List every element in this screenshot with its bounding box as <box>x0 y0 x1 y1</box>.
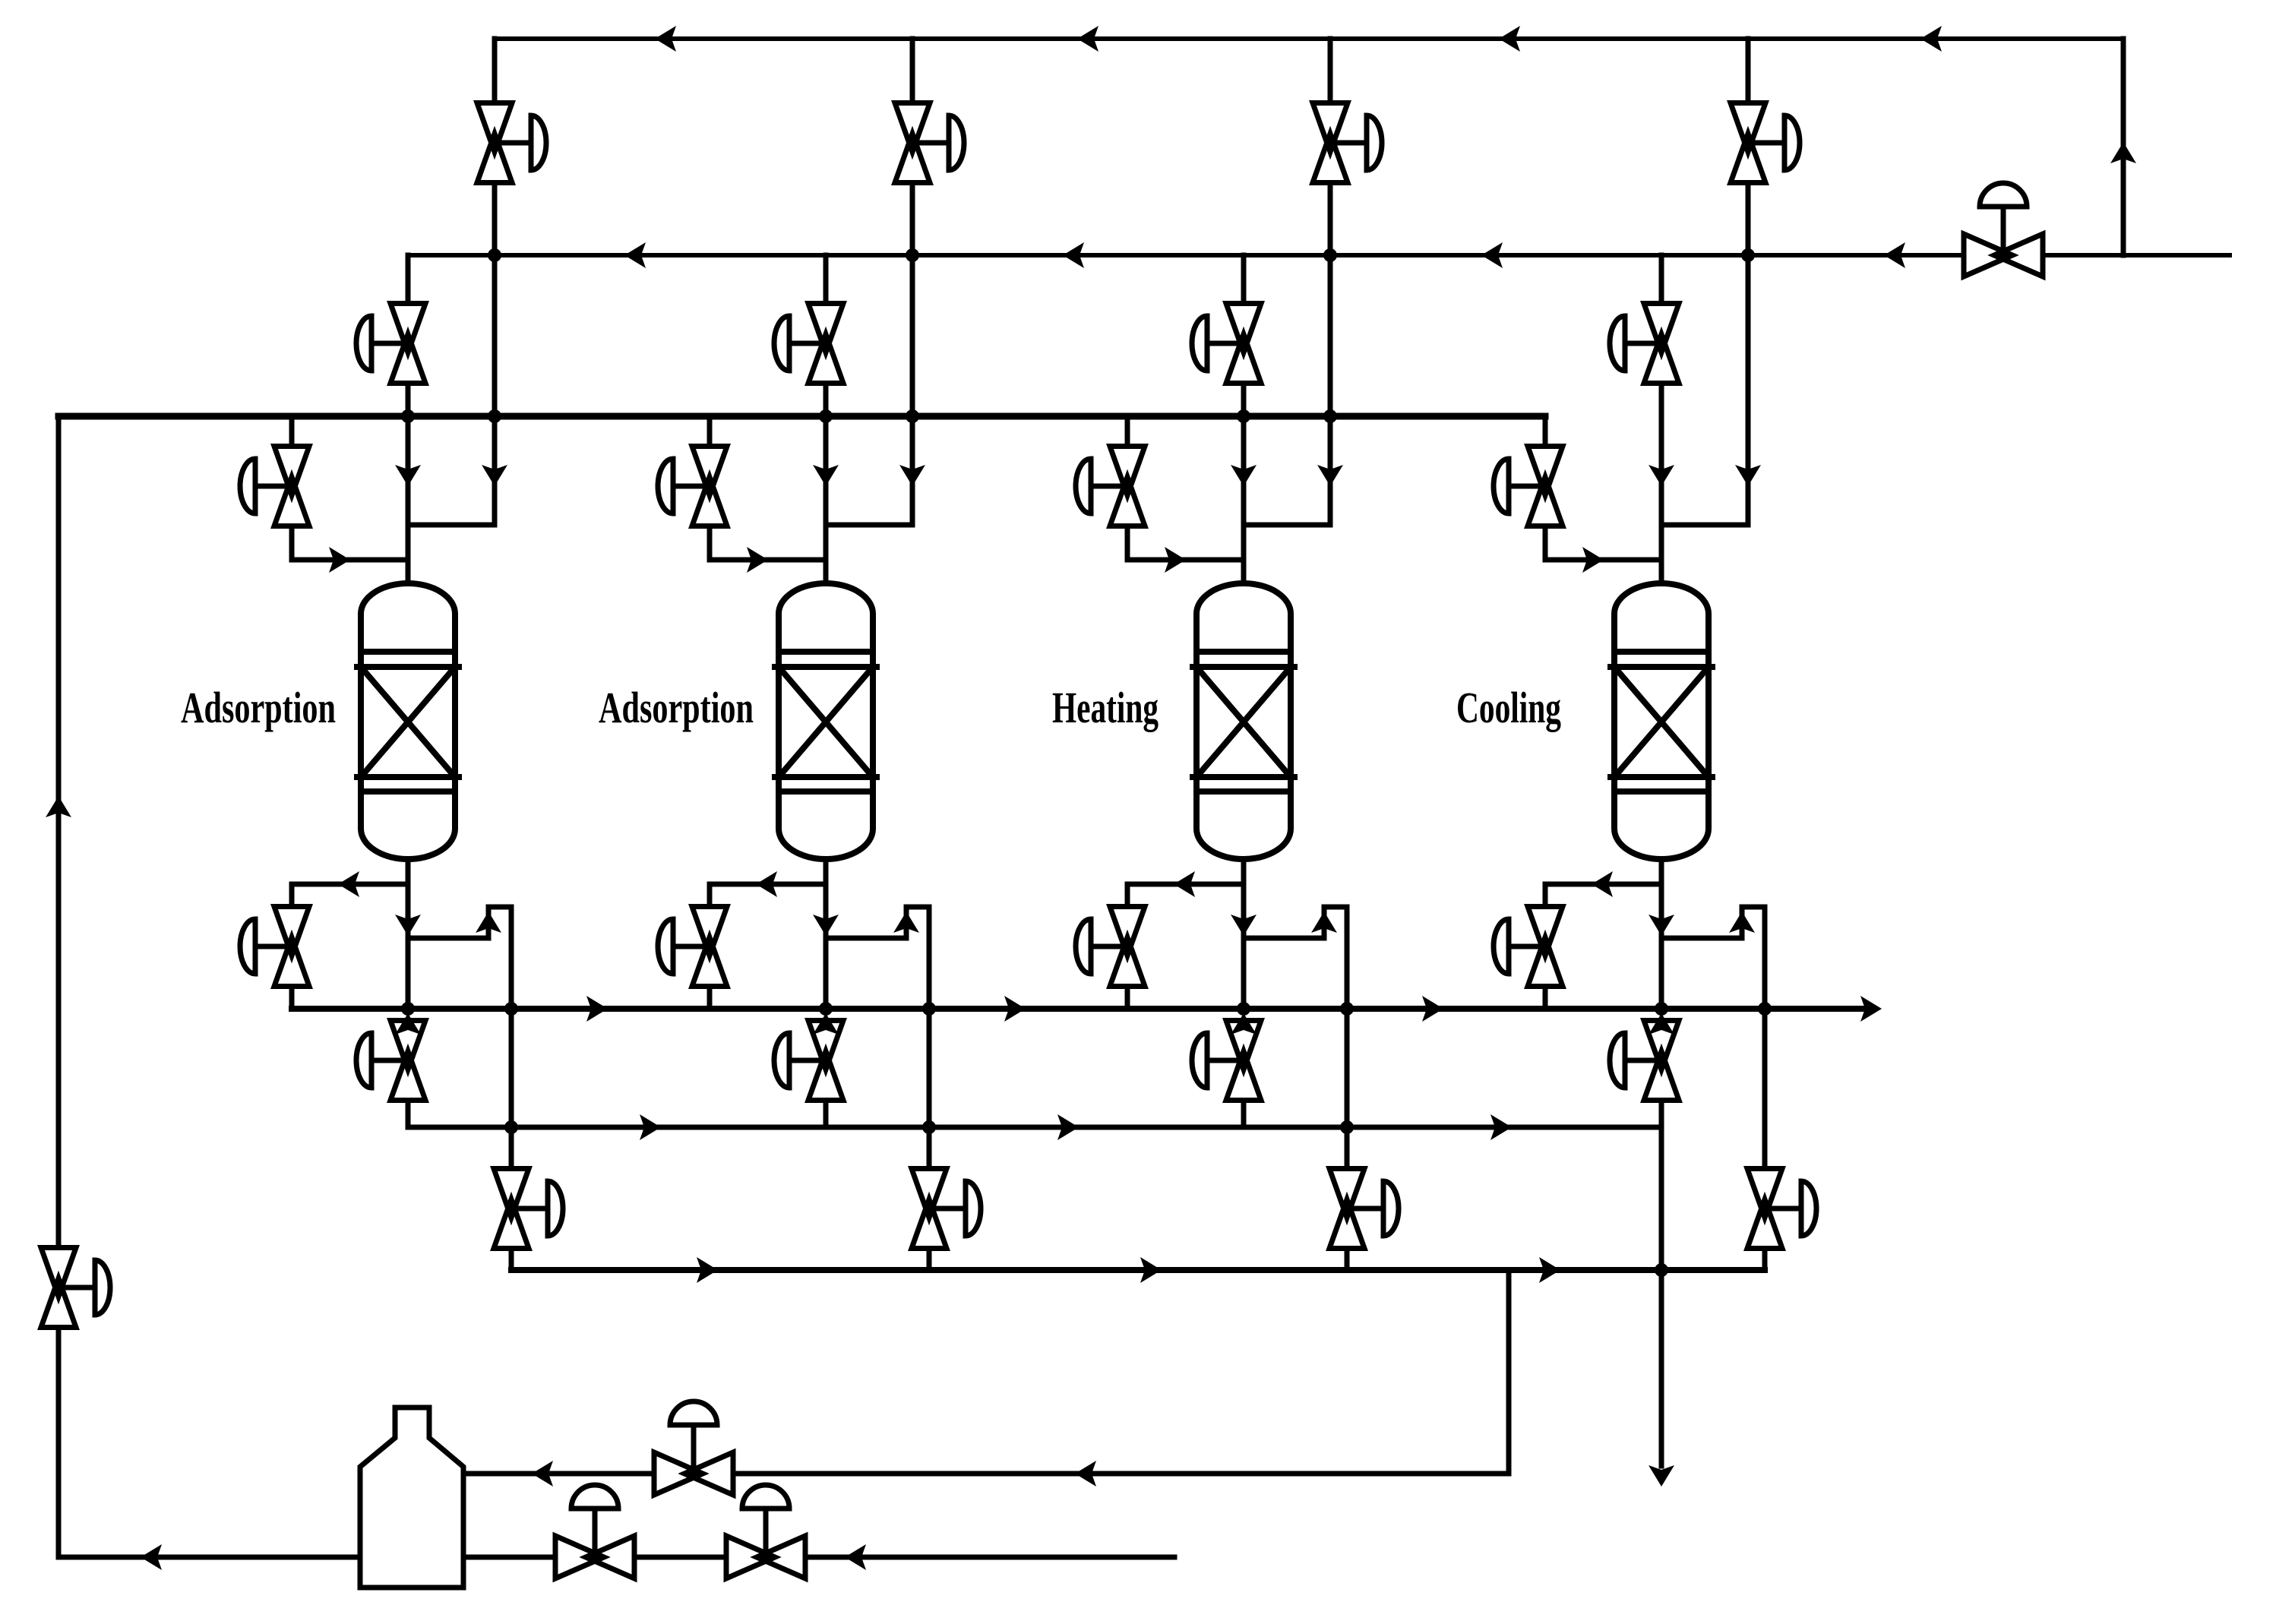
wire: column 2 outlet branch to drain valve <box>710 882 826 887</box>
wire: column 2 feed branch to vessel inlet <box>710 558 826 563</box>
wire: column 4 row E valve to line5 <box>1659 1101 1664 1127</box>
control valve CV2 (tank inlet) <box>691 1425 697 1474</box>
wire: column 4 feed branch to vessel inlet <box>1545 558 1661 563</box>
flow arrow right on line 5 #1 <box>640 1114 661 1140</box>
wire: column 3 top riser lower stub <box>1328 183 1333 255</box>
flow arrow down on legL1 <box>395 465 421 486</box>
junction: legL2 x manifold <box>819 409 833 423</box>
wire: column 1 top riser lower stub <box>492 183 498 255</box>
wire: column 3 legL manifold to vessel <box>1241 416 1247 583</box>
flow arrow down on legL3 <box>1231 465 1257 486</box>
wire: column 1 legL line2 stub <box>406 255 411 304</box>
wire: legR2-2 line5 to valve <box>927 1127 932 1169</box>
wire: legR2-3 line5 to valve <box>1345 1127 1350 1169</box>
flow arrow left on outlet branch 1 <box>338 871 359 897</box>
wire: legR3 elbow to vessel inlet <box>1244 523 1330 528</box>
junction: legR2-4 x line4 <box>1758 1002 1772 1016</box>
wire: column 1 legL to manifold <box>406 384 411 416</box>
flow arrow up into line4 column 3 <box>1231 1013 1257 1035</box>
junction: legR2 x manifold <box>906 409 919 423</box>
junction: legR2-1 x line4 <box>504 1002 518 1016</box>
junction: legR2-3 x line5 <box>1340 1120 1354 1134</box>
valve V45 (product, actuator left) <box>1625 1058 1661 1063</box>
wire: column 3 feed branch stub <box>1125 416 1130 447</box>
wire: column 4 top riser upper stub <box>1746 39 1751 103</box>
wire: column 3 legL to manifold <box>1241 384 1247 416</box>
svg-text:Adsorption: Adsorption <box>599 683 754 732</box>
flow arrow right on feed branch 3 <box>1165 547 1186 573</box>
flow arrow right on line 4 #1 <box>586 996 608 1022</box>
wire: recycle riser <box>2121 39 2126 255</box>
junction: legR2 x line2 <box>906 248 919 262</box>
valve V13 (feed inlet, actuator left) <box>255 484 292 489</box>
junction: legR3 x line2 <box>1323 248 1337 262</box>
wire: column 3 vessel outlet drop <box>1241 859 1247 1009</box>
wire: column 1 crossover riser <box>486 907 492 938</box>
valve V15 (product, actuator left) <box>371 1058 408 1063</box>
flow arrow down on legL2 <box>813 465 839 486</box>
wire: column 4 drain valve stub <box>1543 884 1548 907</box>
wire: legR2-4 valve to line6 <box>1762 1249 1768 1270</box>
wire: legR2-1 valve to line6 <box>509 1249 514 1270</box>
valve V32 (regeneration gas inlet, actuator left) <box>1207 341 1244 346</box>
wire: legR2-2 line4 to line5 <box>927 1009 932 1127</box>
wire: tank inlet horizontal <box>463 1471 1509 1477</box>
wire: legR2-2 valve to line6 <box>927 1249 932 1270</box>
valve V23 (feed inlet, actuator left) <box>673 484 710 489</box>
wire: column 2 legL line2 stub <box>823 255 829 304</box>
flow arrow left on top header #1 <box>655 26 676 52</box>
junction: product drop x line6 <box>1655 1263 1668 1277</box>
wire: column 2 vessel outlet drop <box>823 859 829 1009</box>
flow arrow up on crossover 3 <box>1311 912 1337 933</box>
junction: legR2-2 x line4 <box>922 1002 936 1016</box>
wire: column 3 legR2 drop to line4 <box>1345 907 1350 1009</box>
wire: column 4 legL manifold to vessel <box>1659 416 1664 583</box>
flow arrow right on line 4 #3 <box>1422 996 1443 1022</box>
flow arrow up into line4 column 4 <box>1649 1013 1674 1035</box>
flow arrow left bottom line <box>141 1544 162 1570</box>
wire: column 1 drain valve to line4 <box>289 987 295 1009</box>
wire: legR2-3 line4 to line5 <box>1345 1009 1350 1127</box>
valve V24 (blowdown, actuator left) <box>673 944 710 949</box>
flow arrow right on line 5 #3 <box>1490 1114 1512 1140</box>
wire: column 4 outlet branch to drain valve <box>1545 882 1661 887</box>
svg-text:Heating: Heating <box>1052 683 1159 732</box>
flow arrow right on line 6 #2 <box>1140 1257 1162 1283</box>
flow arrow down on legR4 <box>1735 465 1761 486</box>
junction: legL1 x manifold <box>401 409 415 423</box>
flow arrow left on line 2 #4 <box>1884 242 1905 268</box>
junction: outlet3 x line4 <box>1237 1002 1250 1016</box>
flow arrow right on line 5 #2 <box>1057 1114 1079 1140</box>
valve V36 (regeneration outlet, actuator right) <box>1347 1206 1383 1212</box>
wire: column 4 vessel outlet drop <box>1659 859 1664 1009</box>
wire: column 1 row E valve to line5 <box>406 1101 411 1127</box>
flow arrow left on top header #4 <box>1920 26 1942 52</box>
flow arrow up on crossover 4 <box>1729 912 1755 933</box>
wire: column 1 feed branch drop <box>289 526 295 560</box>
junction: outlet2 x line4 <box>819 1002 833 1016</box>
svg-text:Adsorption: Adsorption <box>181 683 336 732</box>
wire: column 3 feed branch drop <box>1125 526 1130 560</box>
wire: left recycle riser <box>56 416 62 1247</box>
svg-text:Cooling: Cooling <box>1456 683 1561 732</box>
valve V34 (blowdown, actuator left) <box>1091 944 1127 949</box>
flow arrow up on left riser <box>46 796 71 817</box>
wire: legR1 elbow to vessel inlet <box>408 523 495 528</box>
vessel V2 (Adsorption adsorber) <box>779 583 873 859</box>
tank (knockout drum) <box>360 1408 463 1588</box>
flow arrow down on legL4 <box>1649 465 1674 486</box>
wire: column 4 legL line2 stub <box>1659 255 1664 304</box>
wire: column 4 crossover riser <box>1740 907 1745 938</box>
flow arrow up on crossover 1 <box>476 912 501 933</box>
wire: legR2-4 line5 to valve <box>1762 1127 1768 1169</box>
junction: legR3 x manifold <box>1323 409 1337 423</box>
flow arrow down on outlet 3 <box>1231 915 1257 936</box>
wire: column 3 legR line2 to manifold <box>1328 255 1333 525</box>
wire: legR2-4 line4 to line5 <box>1762 1009 1768 1127</box>
wire: product header (line 4) <box>292 1006 1863 1012</box>
wire: line5 end down to product outlet <box>1659 1127 1664 1466</box>
wire: column 1 crossover horizontal <box>408 936 488 941</box>
wire: column 2 legR2 drop to line4 <box>927 907 932 1009</box>
valve V31 (top header isolation, actuator right) <box>1330 141 1367 146</box>
flow arrow left tank inlet #1 <box>1075 1461 1096 1487</box>
flow arrow up on crossover 2 <box>893 912 919 933</box>
wire: legR2-3 valve to line6 <box>1345 1249 1350 1270</box>
wire: column 1 feed branch stub <box>289 416 295 447</box>
wire: column 3 crossover riser <box>1322 907 1327 938</box>
wire: column 3 crossover top <box>1324 905 1347 910</box>
wire: purge header (line 5) <box>408 1125 1661 1130</box>
flow arrow right on line 4 #4 <box>1860 996 1882 1022</box>
flow arrow right on line 6 #1 <box>697 1257 718 1283</box>
wire: column 1 legR2 drop to line4 <box>509 907 514 1009</box>
vessel V1 (Adsorption adsorber) <box>361 583 455 859</box>
wire: column 4 crossover top <box>1742 905 1765 910</box>
wire: column 1 feed branch to vessel inlet <box>292 558 408 563</box>
wire: column 1 legR line2 to manifold <box>492 255 498 525</box>
wire: legR2-1 line5 to valve <box>509 1127 514 1169</box>
wire: column 3 legL line2 stub <box>1241 255 1247 304</box>
flow arrow up into line4 column 1 <box>395 1013 421 1035</box>
valve V42 (regeneration gas inlet, actuator left) <box>1625 341 1661 346</box>
wire: left riser valve to bottom corner <box>56 1328 62 1557</box>
wire: column 2 feed branch stub <box>707 416 713 447</box>
wire: column 1 drain valve stub <box>289 884 295 907</box>
flow arrow right on feed branch 1 <box>329 547 350 573</box>
wire: line6 drop to tank <box>1506 1270 1512 1474</box>
flow arrow left on outlet branch 3 <box>1174 871 1195 897</box>
flow arrow left on top header #2 <box>1077 26 1098 52</box>
flow arrow left on top header #3 <box>1499 26 1520 52</box>
flow arrow right on feed branch 2 <box>747 547 768 573</box>
flow arrow left on line 2 #2 <box>1063 242 1084 268</box>
flow arrow left on line 2 #3 <box>1481 242 1503 268</box>
wire: column 3 drain valve stub <box>1125 884 1130 907</box>
wire: feed manifold (line 3) <box>58 413 1545 420</box>
wire: column 1 vessel outlet drop <box>406 859 411 1009</box>
wire: column 3 crossover horizontal <box>1244 936 1324 941</box>
wire: column 3 outlet branch to drain valve <box>1127 882 1244 887</box>
wire: column 3 top riser upper stub <box>1328 39 1333 103</box>
flow arrow down on outlet 2 <box>813 915 839 936</box>
flow arrow right on feed branch 4 <box>1582 547 1604 573</box>
wire: column 3 feed branch to vessel inlet <box>1127 558 1244 563</box>
flow arrow down on legR2 <box>899 465 925 486</box>
wire: regeneration gas header (line 2) <box>408 253 2230 258</box>
wire: bottom line right of tank <box>463 1555 1174 1560</box>
flow arrow down product outlet <box>1649 1465 1674 1487</box>
wire: top return header (line 1) <box>495 36 2123 41</box>
wire: column 2 crossover horizontal <box>826 936 906 941</box>
wire: column 2 row E valve to line5 <box>823 1101 829 1127</box>
flow arrow left on outlet branch 2 <box>756 871 777 897</box>
flow arrow left on bottom right line <box>845 1544 866 1570</box>
flow arrow right on line 6 #3 <box>1539 1257 1560 1283</box>
junction: legR4 x line2 <box>1741 248 1755 262</box>
wire: column 2 feed branch drop <box>707 526 713 560</box>
wire: column 2 top riser upper stub <box>910 39 915 103</box>
valve V12 (regeneration gas inlet, actuator left) <box>371 341 408 346</box>
wire: column 1 legL manifold to vessel <box>406 416 411 583</box>
valve V11 (top header isolation, actuator right) <box>495 141 531 146</box>
wire: column 2 drain valve stub <box>707 884 713 907</box>
wire: column 4 drain valve to line4 <box>1543 987 1548 1009</box>
wire: column 3 drain valve to line4 <box>1125 987 1130 1009</box>
wire: column 1 crossover top <box>488 905 511 910</box>
valve V14 (blowdown, actuator left) <box>255 944 292 949</box>
flow arrow down on legR1 <box>482 465 507 486</box>
vessel V4 (Cooling adsorber) <box>1614 583 1709 859</box>
valve V41 (top header isolation, actuator right) <box>1748 141 1784 146</box>
junction: legR2-1 x line5 <box>504 1120 518 1134</box>
flow arrow left on line 2 #1 <box>624 242 646 268</box>
wire: column 4 crossover horizontal <box>1661 936 1742 941</box>
wire: legR2-1 line4 to line5 <box>509 1009 514 1127</box>
control valve CV3 (bottom line) <box>593 1509 598 1557</box>
flow arrow right on line 4 #2 <box>1004 996 1026 1022</box>
wire: column 2 legR line2 to manifold <box>910 255 915 525</box>
flow arrow left tank inlet #2 <box>532 1461 553 1487</box>
valve V46 (regeneration outlet, actuator right) <box>1765 1206 1801 1212</box>
wire: column 1 outlet branch to drain valve <box>292 882 408 887</box>
wire: column 2 legL to manifold <box>823 384 829 416</box>
wire: column 2 legL manifold to vessel <box>823 416 829 583</box>
junction: outlet1 x line4 <box>401 1002 415 1016</box>
flow arrow down on legR3 <box>1317 465 1343 486</box>
wire: column 2 crossover top <box>906 905 929 910</box>
valve V16 (regeneration outlet, actuator right) <box>511 1206 548 1212</box>
wire: column 4 legR2 drop to line4 <box>1762 907 1768 1009</box>
control valve CV4 (bottom line) <box>763 1509 769 1557</box>
wire: regeneration outlet header (line 6) <box>511 1267 1765 1273</box>
valve V43 (feed inlet, actuator left) <box>1509 484 1545 489</box>
valve V25 (product, actuator left) <box>789 1058 826 1063</box>
junction: legL3 x manifold <box>1237 409 1250 423</box>
valve V44 (blowdown, actuator left) <box>1509 944 1545 949</box>
wire: legR2 elbow to vessel inlet <box>826 523 912 528</box>
wire: column 4 legR line2 to manifold <box>1746 255 1751 525</box>
wire: column 2 top riser lower stub <box>910 183 915 255</box>
wire: column 2 drain valve to line4 <box>707 987 713 1009</box>
junction: outlet4 x line4 <box>1655 1002 1668 1016</box>
flow arrow left on outlet branch 4 <box>1592 871 1613 897</box>
junction: legR1 x line2 <box>488 248 501 262</box>
wire: column 4 legL to manifold <box>1659 384 1664 416</box>
wire: column 3 row E valve to line5 <box>1241 1101 1247 1127</box>
wire: column 4 feed branch stub <box>1543 416 1548 447</box>
junction: legR2-3 x line4 <box>1340 1002 1354 1016</box>
junction: legR1 x manifold <box>488 409 501 423</box>
flow arrow up on recycle riser <box>2110 142 2136 163</box>
vessel V3 (Heating adsorber) <box>1196 583 1291 859</box>
flow arrow down on outlet 1 <box>395 915 421 936</box>
valve V01 (recycle riser, actuator right) <box>58 1285 95 1291</box>
valve V22 (regeneration gas inlet, actuator left) <box>789 341 826 346</box>
valve V21 (top header isolation, actuator right) <box>912 141 949 146</box>
valve V33 (feed inlet, actuator left) <box>1091 484 1127 489</box>
wire: legR4 elbow to vessel inlet <box>1661 523 1748 528</box>
wire: column 4 feed branch drop <box>1543 526 1548 560</box>
wire: column 4 top riser lower stub <box>1746 183 1751 255</box>
valve V35 (product, actuator left) <box>1207 1058 1244 1063</box>
flow arrow down on outlet 4 <box>1649 915 1674 936</box>
wire: column 1 top riser upper stub <box>492 39 498 103</box>
valve V26 (regeneration outlet, actuator right) <box>929 1206 966 1212</box>
flow arrow up into line4 column 2 <box>813 1013 839 1035</box>
wire: column 2 crossover riser <box>904 907 909 938</box>
wire: bottom left line to tank <box>58 1555 360 1560</box>
control valve CV1 (recycle, on line 2) <box>2001 207 2006 255</box>
junction: legR2-2 x line5 <box>922 1120 936 1134</box>
